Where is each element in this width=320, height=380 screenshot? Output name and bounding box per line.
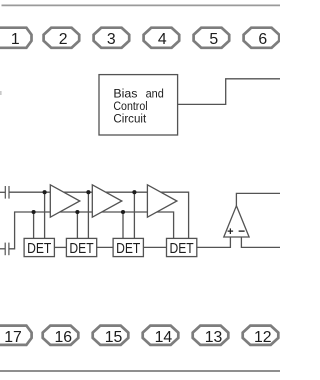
wire DET2 to DET3 (97, 246, 113, 248)
pin 4 (144, 28, 180, 48)
pin 12 (243, 326, 279, 346)
wire DET3 to DET4 (143, 246, 166, 248)
detector DET2 (66, 238, 96, 257)
wire DET3 tap from upper rail (133, 192, 135, 238)
wire DET1 tap from upper rail (44, 192, 46, 238)
svg-text:4: 4 (158, 31, 167, 48)
pin 16 (43, 326, 79, 346)
top border line (2, 4, 281, 6)
wire op-amp output (236, 193, 280, 206)
wire stub at left edge (0, 91, 2, 95)
node DET3 lower tap (121, 210, 125, 214)
svg-text:17: 17 (4, 329, 22, 346)
pin 3 (94, 28, 130, 48)
op-amp U2 (224, 206, 249, 238)
svg-text:15: 15 (105, 329, 123, 346)
svg-text:+: + (227, 226, 233, 238)
pin 5 (194, 28, 230, 48)
svg-text:6: 6 (258, 31, 267, 48)
wire DET3 tap from lower rail (122, 212, 124, 239)
node DET1 lower tap (32, 210, 36, 214)
bottom border line (0, 370, 280, 372)
amplifier A1 (50, 185, 80, 217)
wire bias output to right edge (178, 79, 280, 105)
svg-text:Circuit: Circuit (113, 111, 146, 125)
capacitor C1 (upper input coupling) (0, 186, 9, 199)
svg-text:12: 12 (254, 329, 272, 346)
node DET1 upper tap (43, 190, 47, 194)
svg-text:−: − (238, 224, 245, 238)
detector DET4 (167, 238, 197, 257)
capacitor C2 (lower input coupling) (0, 243, 9, 256)
wire lower signal rail (9, 212, 174, 249)
svg-text:and: and (146, 87, 164, 101)
wire op-amp - input to right edge (241, 237, 280, 247)
svg-text:13: 13 (205, 329, 223, 346)
svg-text:DET: DET (170, 240, 194, 257)
amplifier A2 (92, 185, 122, 217)
wire DET1 tap from lower rail (33, 212, 35, 239)
node DET2 lower tap (75, 210, 79, 214)
node DET2 upper tap (86, 190, 90, 194)
bias and control circuit box U1 (99, 75, 178, 135)
pin 1 (0, 28, 32, 48)
svg-text:3: 3 (107, 31, 116, 48)
svg-text:DET: DET (27, 240, 51, 257)
wire DET2 tap from upper rail (87, 192, 89, 238)
wire DET2 tap from lower rail (76, 212, 78, 239)
svg-text:14: 14 (155, 329, 173, 346)
svg-text:16: 16 (55, 329, 73, 346)
svg-text:DET: DET (116, 240, 140, 257)
node DET3 upper tap (132, 190, 136, 194)
pin 6 (244, 28, 280, 48)
wire upper signal rail (9, 192, 189, 238)
pin 17 (0, 326, 32, 346)
pin 2 (44, 28, 80, 48)
detector DET3 (113, 238, 143, 257)
pin 15 (93, 326, 129, 346)
svg-text:DET: DET (69, 240, 93, 257)
pin 13 (193, 326, 229, 346)
svg-text:5: 5 (209, 31, 218, 48)
pin 14 (143, 326, 179, 346)
svg-text:2: 2 (59, 31, 68, 48)
amplifier A3 (147, 185, 177, 217)
svg-text:1: 1 (11, 31, 20, 48)
wire DET4 to op-amp + input (197, 237, 231, 247)
detector DET1 (24, 238, 54, 257)
wire DET1 to DET2 (54, 246, 66, 248)
